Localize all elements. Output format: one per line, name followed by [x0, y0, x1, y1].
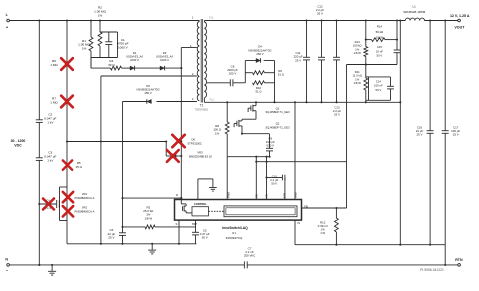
svg-text:1000 V: 1000 V [118, 45, 129, 49]
svg-text:T1: T1 [200, 104, 204, 108]
wire surge chain to gnd bus [66, 221, 68, 244]
svg-text:630 V: 630 V [267, 144, 275, 148]
wire R8 bottom [226, 134, 228, 157]
wire secondary return rail [204, 101, 400, 103]
svg-text:Q1: Q1 [276, 106, 280, 110]
svg-text:51 Ω: 51 Ω [256, 90, 262, 94]
wire FB [302, 207, 347, 209]
svg-text:L1: L1 [413, 5, 417, 9]
wire input cap branch lower [38, 160, 40, 265]
wire D4 box left [244, 61, 246, 83]
varistor VR2 not fitted [63, 206, 73, 216]
resistor R14 [372, 38, 386, 42]
wire BPS pin [284, 178, 286, 200]
wire sec gnd pin [266, 157, 268, 200]
diode D4 [256, 58, 261, 62]
node secondary rail junctions [305, 19, 307, 21]
svg-text:25 V: 25 V [295, 58, 301, 62]
wire R3 row left [123, 226, 146, 228]
svg-text:N: N [5, 258, 8, 262]
fluxlink box inside U1 [224, 206, 297, 217]
wire R10 right [265, 82, 275, 84]
op-amp U1 InnoSwitch outline [175, 200, 302, 221]
capacitor C4 not fitted [56, 200, 58, 208]
ground bottom rail [51, 265, 53, 271]
wire C12 top [321, 21, 323, 58]
wire Q2 source [241, 126, 243, 134]
svg-text:1 W: 1 W [320, 231, 325, 235]
wire D1 to D3 [134, 67, 160, 69]
svg-text:25 V: 25 V [108, 236, 114, 240]
wire bus to RTN [444, 245, 446, 265]
svg-text:30 - 1200: 30 - 1200 [11, 139, 26, 143]
wire R2 top [99, 21, 101, 33]
capacitor C16 [427, 130, 434, 132]
wire C14 box [366, 76, 369, 78]
svg-text:D: D [176, 193, 178, 197]
capacitor C2 [36, 119, 43, 121]
wire divider mid [365, 57, 367, 79]
wire IS pin [294, 220, 296, 245]
svg-text:39 Ω: 39 Ω [108, 63, 115, 67]
svg-text:50 V: 50 V [376, 88, 382, 92]
wire R1 bottom [90, 51, 92, 68]
varistor VR1 not fitted [63, 192, 73, 202]
wire top rail primary [9, 20, 199, 22]
svg-text:SRN6028-1R5M: SRN6028-1R5M [403, 10, 426, 14]
wire C16 bottom [429, 133, 431, 244]
resistor R3 [145, 225, 155, 229]
wire post divider vertical [399, 21, 401, 245]
svg-text:1%: 1% [98, 13, 103, 17]
capacitor C3 [36, 157, 43, 159]
output terminal VOUT [458, 19, 461, 22]
svg-text:750370561: 750370561 [195, 108, 209, 112]
svg-text:25 V: 25 V [317, 12, 323, 16]
wire pin2 vertical [100, 76, 102, 244]
svg-text:2.2 nF: 2.2 nF [45, 207, 52, 210]
wire bottom rail left [9, 264, 244, 266]
wire VR bracket [60, 186, 68, 188]
resistor R5 not fitted [63, 160, 72, 169]
svg-text:S: S [175, 222, 177, 226]
wire R14 to C15 branch [385, 39, 397, 41]
capacitor C13 [333, 56, 340, 58]
svg-text:25 V: 25 V [453, 133, 459, 137]
wire BPP pin [195, 220, 197, 232]
wire C1 box [100, 31, 118, 33]
svg-text:SQJ458EP-T1_GE3: SQJ458EP-T1_GE3 [265, 110, 290, 114]
diode D1 [130, 66, 135, 70]
svg-text:Q2: Q2 [276, 122, 280, 126]
wire S pin [178, 220, 180, 244]
diode D5 [147, 99, 152, 103]
wire C15 branch bottom [396, 53, 398, 65]
wire dashed link [209, 210, 225, 212]
svg-text:50 V: 50 V [202, 236, 208, 240]
svg-text:C15: C15 [377, 45, 383, 49]
output terminal RTN [458, 264, 461, 267]
svg-text:50 V: 50 V [377, 54, 383, 58]
wire C8 row [207, 82, 231, 84]
resistor R13 [364, 47, 368, 57]
svg-text:1/8 W: 1/8 W [354, 81, 362, 85]
capacitor C8 [229, 79, 231, 86]
svg-text:25 V: 25 V [417, 133, 423, 137]
svg-text:1/8 W: 1/8 W [376, 36, 384, 40]
inductor L1 [405, 18, 424, 20]
wire bias vertical upper [122, 102, 124, 233]
wire clamp to R4 [90, 58, 92, 69]
capacitor C11 [303, 56, 310, 58]
resistor R4 [111, 66, 122, 70]
wire R4 to D1 [122, 67, 131, 69]
svg-text:P6SMB400CA-A: P6SMB400CA-A [74, 196, 94, 200]
capacitor C1 [105, 41, 112, 43]
wire R8 top [226, 102, 228, 122]
resistor R11 [364, 78, 368, 90]
svg-text:FL1: FL1 [209, 17, 214, 20]
wire gate sense row [256, 161, 346, 163]
wire secondary bottom pin [203, 98, 205, 102]
wire pin3 to D5 [157, 101, 197, 103]
wire FB riser [346, 65, 348, 209]
wire mid node to FB riser [347, 64, 366, 66]
wire C6 bottom [122, 235, 124, 243]
svg-text:PI-9096-041221: PI-9096-041221 [420, 268, 444, 272]
wire R12 top [335, 208, 337, 218]
wire top rail after L1 [424, 20, 458, 22]
node top rail junctions [38, 19, 40, 21]
svg-text:VOUT: VOUT [454, 25, 465, 29]
transformer T1 secondary winding [204, 22, 206, 98]
svg-text:VR1: VR1 [82, 192, 88, 196]
wire C12 bottom [321, 60, 323, 102]
svg-text:IS: IS [297, 221, 300, 225]
transformer T1 primary winding [198, 21, 200, 22]
resistor R1 [89, 37, 93, 51]
svg-text:12 V, 1.25 A: 12 V, 1.25 A [450, 14, 470, 18]
wire top rail secondary [204, 20, 405, 22]
wire R3 row right [155, 226, 196, 228]
wire input cap branch upper [38, 21, 40, 120]
svg-text:VDC: VDC [14, 143, 22, 147]
wire C10 row [267, 177, 283, 179]
wire between C2 C3 [38, 122, 40, 157]
wire drain vertical [180, 48, 182, 200]
capacitor C17 [442, 130, 449, 132]
wire bias tap to drain [123, 197, 182, 199]
svg-text:VR3: VR3 [197, 151, 203, 155]
svg-text:D6: D6 [191, 138, 195, 142]
svg-text:InnoSwitch3-AQ: InnoSwitch3-AQ [222, 226, 248, 230]
svg-text:MMSZ5248B-E3 18: MMSZ5248B-E3 18 [189, 154, 212, 158]
wire C16 top [429, 21, 431, 131]
svg-text:SQJ458EP-T1_GE3: SQJ458EP-T1_GE3 [265, 125, 290, 129]
svg-text:STPS3150Z: STPS3150Z [187, 141, 202, 145]
svg-text:1/8 W: 1/8 W [145, 216, 153, 220]
transistor Q1 [255, 102, 257, 105]
capacitor C14 [387, 85, 394, 87]
resistor R7 not fitted [61, 96, 73, 108]
svg-text:51 Ω: 51 Ω [278, 72, 284, 76]
svg-text:R14: R14 [377, 24, 383, 28]
transformer core [200, 19, 202, 103]
zener VR3 not fitted [173, 154, 176, 158]
svg-text:INN3947CQ: INN3947CQ [226, 236, 243, 240]
svg-text:1 kV: 1 kV [47, 120, 54, 124]
capacitor C9 [266, 147, 273, 149]
wire FWD pin [226, 157, 228, 200]
wire divider top [365, 21, 367, 47]
wire SR source rail [227, 156, 269, 158]
wire SR pin [255, 157, 257, 200]
wire divider bottom [365, 90, 367, 102]
capacitor C5 [192, 231, 199, 233]
resistor R6 not fitted [61, 58, 73, 70]
wire C5 bottom [195, 235, 197, 244]
diode D3 [160, 66, 165, 70]
resistor R12 [335, 218, 339, 232]
resistor R6 snubber [253, 71, 265, 75]
wire C9 bottom [269, 151, 271, 157]
wire VR3 branch [165, 142, 167, 157]
wire C13 bottom [336, 60, 338, 102]
wire GND pin [294, 102, 296, 199]
resistor R8 [225, 122, 229, 134]
wire pin2 row [101, 75, 197, 77]
svg-text:10 nF: 10 nF [376, 49, 383, 53]
svg-text:U1: U1 [232, 231, 236, 235]
wire secondary top pin [203, 21, 205, 23]
svg-text:RTN: RTN [455, 258, 463, 262]
wire secondary gnd bus [295, 244, 445, 246]
input terminal L [7, 19, 10, 22]
svg-text:1/8 W: 1/8 W [354, 51, 362, 55]
svg-text:15 Ω: 15 Ω [75, 165, 82, 169]
svg-text:1000 V: 1000 V [160, 58, 169, 62]
transistor Q2 [241, 119, 243, 121]
wire C11 bottom [306, 60, 308, 102]
wire C4 branch [39, 203, 56, 205]
wire C11 top [306, 21, 308, 58]
svg-text:P6SMB400CA-A: P6SMB400CA-A [74, 209, 94, 213]
svg-text:250 V: 250 V [256, 52, 263, 56]
ground hook from U1 [197, 179, 199, 200]
wire R4 row [91, 67, 111, 69]
capacitor C10 [281, 175, 283, 181]
wire R12 bottom [335, 232, 337, 245]
svg-text:200 V: 200 V [229, 72, 237, 76]
svg-text:1%: 1% [82, 46, 87, 50]
svg-text:25 V: 25 V [334, 113, 340, 117]
wire bias sense row [67, 141, 166, 143]
svg-text:1 kV: 1 kV [47, 158, 54, 162]
wire C9 top [269, 134, 271, 149]
svg-text:1 MΩ: 1 MΩ [50, 100, 58, 104]
capacitor C12 [318, 56, 325, 58]
wire primary gnd bus [67, 243, 196, 245]
ground primary bus [151, 244, 153, 250]
capacitor C7 [243, 261, 245, 268]
wire surge chain upper [66, 21, 68, 188]
svg-text:BPP: BPP [192, 222, 197, 226]
svg-text:1%: 1% [215, 131, 220, 135]
input terminal N [7, 264, 10, 267]
capacitor C6 [119, 232, 126, 234]
wire C8 to box [233, 82, 245, 84]
capacitor C15 [394, 49, 401, 51]
wire R2 bottom [99, 46, 101, 58]
svg-text:1000 V: 1000 V [130, 58, 139, 62]
resistor R2 [98, 32, 102, 46]
wire R6s row [245, 72, 252, 74]
wire D3 to drain node [164, 67, 181, 69]
wire pin4 stub [181, 47, 197, 49]
wire C13 top [336, 21, 338, 58]
wire bottom rail right [247, 264, 458, 266]
svg-text:250 VAC: 250 VAC [244, 254, 255, 258]
svg-text:50 V: 50 V [271, 182, 277, 186]
svg-text:56 kΩ: 56 kΩ [376, 30, 384, 34]
svg-text:FL2: FL2 [210, 99, 215, 102]
wire R1 top [90, 21, 92, 38]
wire R14 row [366, 39, 372, 41]
svg-text:1 MΩ: 1 MΩ [50, 63, 58, 67]
resistor R10 [253, 81, 265, 85]
svg-text:VR2: VR2 [82, 206, 88, 210]
svg-text:CONTROL: CONTROL [194, 202, 207, 206]
control box inside U1 [192, 207, 209, 216]
wire C17 bottom [444, 133, 446, 244]
transistor primary FET inside U1 [180, 200, 182, 204]
diode D6 not fitted [172, 135, 184, 147]
svg-text:250 V: 250 V [144, 91, 151, 95]
wire C15 branch top [396, 21, 398, 51]
wire C17 top [444, 21, 446, 131]
wire D5 to bias cap [123, 101, 147, 103]
wire Q1 source to Q2 drain [255, 111, 257, 120]
wire D4 top row [245, 60, 256, 62]
wire D4 box right [274, 61, 276, 103]
